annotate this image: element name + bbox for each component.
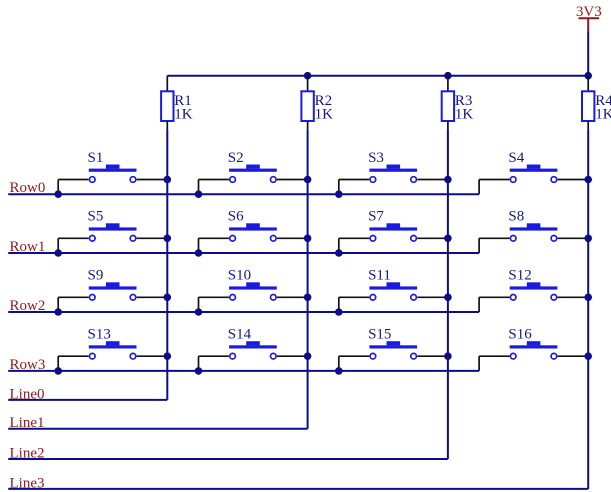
junction dot S6 to column [304,235,312,243]
resistor R4 1K [582,76,611,130]
svg-text:S8: S8 [508,209,524,225]
switch S6 [199,209,308,253]
wire Line1 [8,428,307,430]
switch S3 [339,150,448,194]
junction dot S10 to column [304,294,312,302]
switch S4 [479,150,588,194]
svg-text:S7: S7 [368,209,384,225]
svg-text:1K: 1K [455,107,474,123]
wire Row0 [8,193,479,195]
svg-text:Line0: Line0 [10,386,45,402]
svg-text:1K: 1K [174,107,193,123]
resistor R3 1K [442,76,474,130]
junction dot S12 to column [584,294,592,302]
junction dot S13 to row [54,367,62,375]
switch S7 [339,209,448,253]
junction dot S11 to row [335,308,343,316]
junction dot S11 to column [444,294,452,302]
wire Line0 [8,399,167,401]
junction dot S4 to column [584,176,592,184]
switch S2 [199,150,308,194]
junction dot S2 to column [304,176,312,184]
power 3V3 [576,4,602,32]
net label Line0 [10,386,45,402]
junction dot bus col2 [304,72,312,80]
svg-text:S3: S3 [368,150,384,166]
resistor R2 1K [301,76,333,130]
junction dot S5 to column [164,235,172,243]
junction dot S3 to column [444,176,452,184]
switch S14 [199,327,308,371]
junction dot S9 to row [54,308,62,316]
svg-text:S11: S11 [368,268,391,284]
switch S1 [58,150,167,194]
junction dot S14 to row [195,367,203,375]
svg-text:S2: S2 [228,150,244,166]
switch S10 [199,268,308,312]
svg-text:S10: S10 [228,268,251,284]
switch S12 [479,268,588,312]
svg-text:S9: S9 [88,268,104,284]
junction dot S7 to row [335,249,343,257]
wire Line3 [8,488,588,490]
switch S13 [58,327,167,371]
switch S16 [479,327,588,371]
junction dot bus col3 [444,72,452,80]
switch S9 [58,268,167,312]
net label Row1 [10,239,46,255]
junction dot S9 to column [164,294,172,302]
net label Row2 [10,298,46,314]
svg-text:S12: S12 [508,268,531,284]
net label Line1 [10,415,45,431]
wire Line2 [8,458,448,460]
net label Line2 [10,446,45,462]
svg-text:Line2: Line2 [10,446,45,462]
svg-text:1K: 1K [315,107,334,123]
wire column 4 net [587,130,589,489]
svg-text:S5: S5 [88,209,104,225]
junction dot S13 to column [164,352,172,360]
wire top bus [167,75,588,77]
junction dot S1 to column [164,176,172,184]
svg-text:S14: S14 [228,327,252,343]
junction dot S14 to column [304,352,312,360]
net label Row3 [10,357,46,373]
junction dot S6 to row [195,249,203,257]
svg-text:S15: S15 [368,327,391,343]
wire Row1 [8,252,479,254]
svg-text:Row1: Row1 [10,239,46,255]
junction dot S1 to row [54,190,62,198]
svg-text:S4: S4 [508,150,524,166]
svg-text:S16: S16 [508,327,532,343]
junction dot S15 to row [335,367,343,375]
svg-text:S6: S6 [228,209,244,225]
svg-text:S1: S1 [88,150,104,166]
svg-text:Line1: Line1 [10,415,45,431]
switch S15 [339,327,448,371]
wire column 1 net [166,130,168,400]
svg-text:Row2: Row2 [10,298,46,314]
svg-text:Line3: Line3 [10,475,45,491]
switch S11 [339,268,448,312]
junction dot S5 to row [54,249,62,257]
junction dot bus col4 [584,72,592,80]
switch S5 [58,209,167,253]
net label Row0 [10,180,46,196]
svg-text:Row0: Row0 [10,180,46,196]
junction dot S2 to row [195,190,203,198]
junction dot S10 to row [195,308,203,316]
junction dot S16 to column [584,352,592,360]
svg-text:1K: 1K [595,107,611,123]
svg-text:S13: S13 [88,327,111,343]
junction dot S15 to column [444,352,452,360]
svg-text:Row3: Row3 [10,357,46,373]
wire column 3 net [447,130,449,459]
wire Row2 [8,311,479,313]
junction dot S7 to column [444,235,452,243]
switch S8 [479,209,588,253]
resistor R1 1K [161,76,193,130]
wire 3V3 vertical [587,32,589,76]
net label Line3 [10,475,45,491]
junction dot S8 to column [584,235,592,243]
junction dot S3 to row [335,190,343,198]
wire column 2 net [307,130,309,429]
wire Row3 [8,370,479,372]
